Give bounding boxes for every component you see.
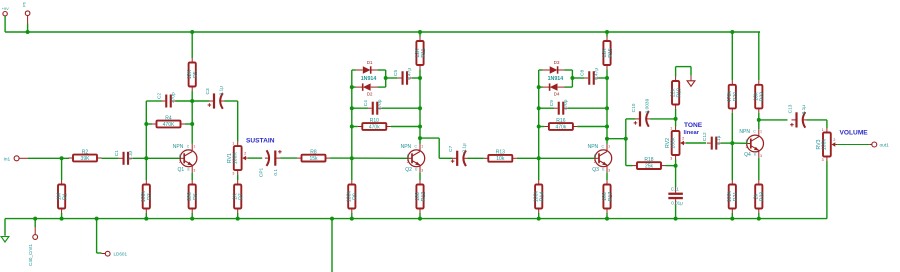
svg-text:R3: R3: [147, 193, 153, 200]
svg-text:Q2: Q2: [405, 167, 412, 173]
svg-text:470k: 470k: [727, 91, 733, 103]
svg-text:2k: 2k: [754, 193, 760, 199]
svg-text:R7: R7: [239, 193, 245, 200]
svg-text:C13: C13: [788, 104, 794, 113]
svg-text:100k: 100k: [347, 190, 353, 202]
svg-text:R16: R16: [556, 118, 565, 124]
svg-text:linear: linear: [684, 130, 700, 136]
svg-text:CP1: CP1: [259, 167, 265, 177]
svg-text:2: 2: [179, 160, 181, 164]
svg-text:R11: R11: [421, 48, 427, 57]
svg-text:TONE: TONE: [684, 122, 703, 129]
svg-text:15k: 15k: [309, 156, 318, 162]
svg-text:39K: 39K: [81, 156, 91, 162]
svg-text:Q3: Q3: [592, 167, 599, 173]
svg-text:3: 3: [232, 172, 234, 176]
svg-text:R19: R19: [677, 88, 683, 98]
svg-text:NPN: NPN: [739, 129, 750, 135]
svg-text:R5: R5: [193, 71, 199, 78]
svg-text:Q1: Q1: [178, 167, 185, 173]
svg-text:C10: C10: [631, 103, 637, 112]
svg-text:SUSTAIN: SUSTAIN: [246, 137, 275, 144]
svg-text:10k: 10k: [754, 92, 760, 101]
svg-text:2: 2: [682, 137, 684, 141]
svg-text:470K: 470K: [163, 122, 175, 128]
svg-text:C2: C2: [157, 93, 163, 99]
svg-text:C4: C4: [363, 100, 369, 106]
svg-text:1: 1: [670, 126, 672, 130]
svg-text:D3: D3: [554, 60, 560, 65]
svg-text:Q4: Q4: [744, 152, 751, 158]
svg-text:3: 3: [670, 157, 672, 161]
svg-text:C5: C5: [393, 70, 399, 76]
svg-text:R8: R8: [310, 150, 317, 156]
svg-text:1: 1: [822, 128, 824, 132]
svg-text:R6: R6: [193, 193, 199, 200]
svg-text:R20: R20: [733, 92, 739, 102]
svg-text:R1: R1: [63, 193, 69, 200]
svg-text:12K: 12K: [187, 69, 193, 79]
svg-text:0.0039: 0.0039: [644, 98, 650, 113]
svg-text:D4: D4: [554, 91, 560, 96]
svg-text:470k: 470k: [555, 124, 566, 130]
svg-text:C8: C8: [580, 70, 586, 76]
svg-text:0.47µ: 0.47µ: [407, 68, 413, 80]
svg-text:12K: 12K: [602, 48, 608, 58]
svg-text:R13: R13: [496, 150, 505, 156]
svg-text:0.01µ: 0.01µ: [671, 201, 683, 206]
svg-text:R15: R15: [608, 48, 614, 58]
svg-text:0.47µ: 0.47µ: [593, 68, 599, 80]
svg-text:R23: R23: [760, 192, 766, 202]
svg-text:2: 2: [407, 160, 409, 164]
svg-text:NPN: NPN: [173, 144, 184, 150]
svg-text:1: 1: [421, 144, 423, 148]
svg-text:C40_Cmt1: C40_Cmt1: [28, 244, 33, 266]
svg-text:22k: 22k: [670, 88, 676, 97]
svg-text:470p: 470p: [377, 99, 383, 110]
svg-text:1: 1: [194, 144, 196, 148]
svg-text:R9: R9: [353, 193, 359, 200]
svg-text:In1: In1: [4, 156, 11, 162]
svg-text:LD601: LD601: [114, 252, 128, 257]
svg-text:R21: R21: [733, 192, 739, 202]
svg-text:R10: R10: [370, 118, 379, 124]
svg-text:C9: C9: [549, 100, 555, 106]
svg-text:0.1µ: 0.1µ: [128, 151, 134, 161]
svg-text:R17: R17: [608, 192, 614, 202]
svg-text:0.1µ: 0.1µ: [801, 105, 807, 115]
svg-text:R18: R18: [644, 157, 653, 163]
svg-text:1: 1: [760, 130, 762, 134]
svg-text:C7: C7: [448, 145, 454, 151]
svg-text:2: 2: [594, 160, 596, 164]
svg-text:1N914: 1N914: [361, 76, 377, 82]
svg-text:2: 2: [746, 145, 748, 149]
svg-text:1N914: 1N914: [548, 76, 564, 82]
svg-text:10k: 10k: [496, 156, 505, 162]
svg-text:100k: 100k: [822, 138, 828, 150]
svg-text:D1: D1: [367, 60, 373, 65]
svg-text:2: 2: [244, 152, 246, 156]
svg-text:C3: C3: [205, 88, 211, 94]
svg-text:0.1µ: 0.1µ: [218, 86, 224, 96]
svg-text:1M: 1M: [56, 193, 62, 200]
svg-text:C11: C11: [671, 187, 680, 192]
svg-text:D2: D2: [367, 91, 373, 96]
svg-text:R22: R22: [760, 92, 766, 102]
svg-text:3: 3: [194, 169, 196, 173]
svg-text:100k: 100k: [670, 137, 676, 149]
svg-text:C12: C12: [702, 132, 708, 141]
svg-text:390: 390: [187, 192, 193, 201]
svg-text:RV3: RV3: [816, 139, 822, 149]
svg-text:100k: 100k: [141, 190, 147, 202]
svg-text:R12: R12: [421, 192, 427, 202]
svg-text:NPN: NPN: [588, 144, 599, 150]
svg-text:+9V: +9V: [2, 6, 10, 11]
svg-text:NPN: NPN: [401, 144, 412, 150]
svg-text:470k: 470k: [369, 124, 380, 130]
svg-text:R2: R2: [82, 149, 89, 155]
svg-text:470p: 470p: [563, 99, 569, 110]
svg-text:VOLUME: VOLUME: [840, 129, 869, 136]
svg-text:3: 3: [822, 158, 824, 162]
svg-text:R4: R4: [165, 115, 172, 121]
svg-text:RV1: RV1: [227, 153, 233, 163]
svg-text:25k: 25k: [645, 164, 654, 170]
svg-text:R14: R14: [540, 192, 546, 202]
svg-text:0.1: 0.1: [273, 169, 279, 176]
svg-text:3: 3: [421, 169, 423, 173]
svg-text:12K: 12K: [415, 48, 421, 58]
svg-text:0.1µ: 0.1µ: [462, 143, 468, 153]
svg-text:1: 1: [232, 142, 234, 146]
svg-text:1K: 1K: [233, 193, 239, 200]
svg-text:100K: 100K: [233, 152, 239, 165]
svg-text:100k: 100k: [534, 190, 540, 202]
svg-text:100: 100: [602, 192, 608, 201]
svg-text:RV2: RV2: [665, 138, 671, 148]
svg-text:100k: 100k: [727, 190, 733, 202]
svg-text:out1: out1: [880, 142, 890, 148]
svg-text:2: 2: [833, 138, 835, 142]
svg-text:3: 3: [760, 154, 762, 158]
svg-text:3: 3: [608, 169, 610, 173]
svg-text:P6: P6: [22, 1, 27, 7]
svg-text:C1: C1: [114, 150, 120, 156]
svg-text:1: 1: [608, 144, 610, 148]
svg-text:0.1µ: 0.1µ: [716, 135, 722, 145]
svg-text:100: 100: [415, 192, 421, 201]
